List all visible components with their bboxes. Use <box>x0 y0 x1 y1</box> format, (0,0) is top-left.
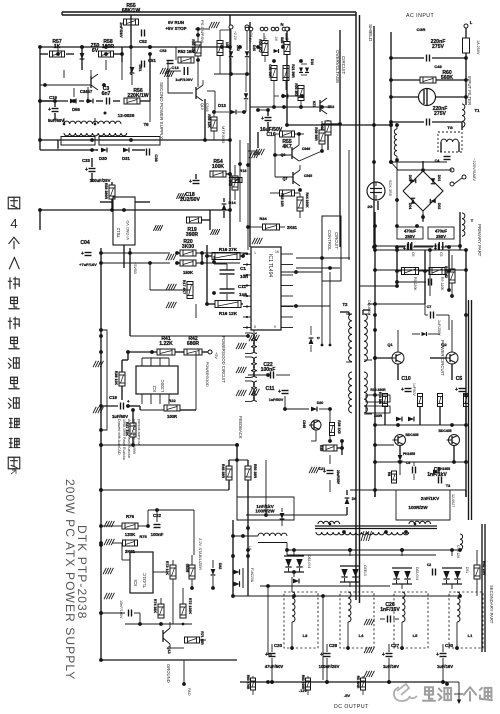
svg-text:+: + <box>436 652 439 658</box>
svg-text:D32: D32 <box>218 563 222 570</box>
svg-text:IC2: IC2 <box>152 385 157 392</box>
svg-text:C11: C11 <box>238 284 247 289</box>
svg-text:C20: C20 <box>274 643 283 648</box>
svg-text:C53: C53 <box>160 49 167 53</box>
svg-text:+2.2V: +2.2V <box>233 31 237 41</box>
svg-text:C10: C10 <box>401 376 411 382</box>
svg-text:1uF/16V: 1uF/16V <box>383 664 399 669</box>
svg-text:GROUND: GROUND <box>166 664 171 683</box>
svg-text:R52 16K: R52 16K <box>178 49 195 54</box>
svg-text:IC5: IC5 <box>133 579 138 586</box>
svg-text:D20: D20 <box>317 401 324 405</box>
svg-text:560R: 560R <box>185 564 189 573</box>
svg-text:2nF/2kV: 2nF/2kV <box>119 22 124 38</box>
svg-text:R59 390R: R59 390R <box>104 183 108 200</box>
svg-text:pavouk.comp.cz 1999: pavouk.comp.cz 1999 <box>132 419 136 454</box>
svg-text:IC1 TL494: IC1 TL494 <box>267 254 273 277</box>
svg-text:R22: R22 <box>168 398 176 403</box>
svg-text:C5: C5 <box>456 376 463 382</box>
svg-text:R73 10K: R73 10K <box>165 561 169 576</box>
svg-text:R16 12K: R16 12K <box>219 311 238 316</box>
svg-text:FEEDBACK: FEEDBACK <box>238 416 243 439</box>
svg-text:+: + <box>81 251 84 257</box>
svg-text:+: + <box>189 179 192 185</box>
svg-text:180R: 180R <box>102 44 114 50</box>
svg-text:C16: C16 <box>266 132 276 138</box>
svg-text:SECONDARY PART: SECONDARY PART <box>489 585 494 624</box>
svg-text:BDC405: BDC405 <box>438 429 451 433</box>
svg-text:D83-004: D83-004 <box>415 567 419 580</box>
svg-text:VDR: VDR <box>280 38 284 46</box>
svg-text:C27: C27 <box>391 643 400 648</box>
svg-text:+5V: +5V <box>248 36 252 43</box>
svg-text:R16 27K: R16 27K <box>219 247 238 252</box>
svg-text:L200C: L200C <box>160 380 165 392</box>
svg-text:470uF: 470uF <box>404 229 417 234</box>
svg-text:1A 250V: 1A 250V <box>476 40 480 55</box>
svg-text:12-0027: 12-0027 <box>451 494 455 507</box>
svg-text:330R: 330R <box>374 414 383 418</box>
svg-text:L5: L5 <box>413 633 418 638</box>
svg-text:DTK PTP-2038: DTK PTP-2038 <box>75 525 89 620</box>
svg-text:ZD2: ZD2 <box>328 105 335 109</box>
svg-text:1uF/50V: 1uF/50V <box>269 398 284 402</box>
svg-text:T2: T2 <box>343 302 349 307</box>
svg-text:Q7: Q7 <box>282 177 287 181</box>
svg-text:R75: R75 <box>139 534 147 539</box>
svg-text:1uF/16V: 1uF/16V <box>437 664 453 669</box>
svg-text:D56: D56 <box>72 107 80 112</box>
svg-text:100R/2W: 100R/2W <box>408 505 428 510</box>
svg-text:4K7: 4K7 <box>282 144 292 150</box>
svg-text:R38 10K: R38 10K <box>114 371 118 386</box>
svg-text:100R: 100R <box>167 414 177 419</box>
svg-text:C29: C29 <box>329 643 338 648</box>
svg-text:L4: L4 <box>359 633 364 638</box>
svg-text:C40 56R: C40 56R <box>268 64 272 78</box>
svg-text:+: + <box>455 387 458 393</box>
svg-text:220K/1W: 220K/1W <box>127 93 148 99</box>
svg-text:CEE13: CEE13 <box>363 565 367 576</box>
svg-text:150K: 150K <box>183 270 193 275</box>
svg-text:DC OUTPUT: DC OUTPUT <box>334 704 369 710</box>
svg-text:7812: 7812 <box>116 227 121 238</box>
svg-text:D13: D13 <box>218 103 226 108</box>
svg-text:3K00: 3K00 <box>182 244 194 250</box>
svg-text:1nF/1kV: 1nF/1kV <box>427 472 447 478</box>
svg-text:D04: D04 <box>408 203 412 210</box>
svg-text:SECOND POWER SUPPLY: SECOND POWER SUPPLY <box>159 82 164 139</box>
svg-text:-5V: -5V <box>344 693 351 698</box>
svg-text:R35: R35 <box>319 445 323 451</box>
svg-text:250V: 250V <box>436 234 446 239</box>
svg-text:CONTROL: CONTROL <box>327 230 332 251</box>
svg-text:R42 15R: R42 15R <box>482 561 486 576</box>
svg-text:9: 9 <box>274 325 276 329</box>
svg-text:D10: D10 <box>310 59 314 65</box>
svg-text:8: 8 <box>254 325 256 329</box>
svg-text:F16C20A: F16C20A <box>250 568 254 583</box>
svg-text:+: + <box>401 387 404 393</box>
svg-text:PRIMARY PART: PRIMARY PART <box>477 224 482 257</box>
svg-text:-12V: -12V <box>299 688 308 693</box>
svg-text:HZ?: HZ? <box>312 101 316 107</box>
svg-text:R44 190K: R44 190K <box>305 192 309 208</box>
svg-text:PS-ON/PSW: PS-ON/PSW <box>200 20 205 43</box>
svg-text:C21: C21 <box>319 467 326 471</box>
svg-text:D30: D30 <box>99 156 107 161</box>
svg-text:1998,1999 Pavel Ruzicka: 1998,1999 Pavel Ruzicka <box>122 419 126 460</box>
svg-text:275V: 275V <box>432 44 444 50</box>
svg-text:+: + <box>48 107 51 113</box>
svg-text:C3457: C3457 <box>80 89 93 94</box>
svg-text:100R/2W: 100R/2W <box>255 509 275 514</box>
svg-text:+: + <box>85 167 88 173</box>
svg-text:+5V: +5V <box>214 352 218 359</box>
svg-text:R49 39R: R49 39R <box>221 464 225 479</box>
svg-text:R8: R8 <box>387 472 391 476</box>
svg-text:TG: TG <box>447 125 453 130</box>
svg-text:VI GND VO: VI GND VO <box>126 220 130 240</box>
svg-text:C43: C43 <box>434 64 442 69</box>
svg-text:6V RUN: 6V RUN <box>168 20 184 25</box>
svg-text:C946: C946 <box>302 147 310 151</box>
svg-text:POWERGOOD CIRCUIT: POWERGOOD CIRCUIT <box>221 336 226 383</box>
svg-text:6n7: 6n7 <box>102 91 111 97</box>
svg-text:R56 10K: R56 10K <box>207 114 211 128</box>
svg-text:R21 56R: R21 56R <box>291 64 295 78</box>
svg-text:22uF/25V: 22uF/25V <box>336 470 340 485</box>
svg-text:D51: D51 <box>465 567 469 573</box>
svg-text:BDC405: BDC405 <box>405 433 418 437</box>
svg-text:250V: 250V <box>405 234 415 239</box>
svg-text:Q10: Q10 <box>200 103 204 110</box>
svg-text:100nF: 100nF <box>151 532 164 537</box>
svg-text:+5VSB: +5VSB <box>133 262 137 274</box>
svg-text:T6: T6 <box>143 122 149 127</box>
svg-text:C33: C33 <box>82 158 90 163</box>
svg-text:5uF/50V: 5uF/50V <box>48 118 64 123</box>
svg-text:T1: T1 <box>475 108 481 113</box>
svg-text:1.22K: 1.22K <box>159 341 173 347</box>
svg-text:-5V: -5V <box>274 36 278 42</box>
svg-text:C19: C19 <box>109 395 117 400</box>
svg-text:D03: D03 <box>408 175 412 182</box>
svg-text:T3: T3 <box>446 484 450 488</box>
svg-text:R43 10R: R43 10R <box>280 193 284 207</box>
svg-text:R00 3K0: R00 3K0 <box>294 83 298 96</box>
svg-text:R74 36K: R74 36K <box>153 599 157 614</box>
svg-text:R18 330R: R18 330R <box>370 388 386 392</box>
svg-text:4: 4 <box>10 216 17 231</box>
svg-text:C11: C11 <box>265 386 274 392</box>
svg-text:MTP3055: MTP3055 <box>221 126 226 144</box>
svg-text:CIRCUIT: CIRCUIT <box>334 232 339 249</box>
svg-text:16: 16 <box>275 250 279 254</box>
svg-text:AutoCAD Pavel Ruzicka: AutoCAD Pavel Ruzicka <box>127 419 131 458</box>
svg-text:L3: L3 <box>303 633 308 638</box>
svg-text:2.2V STABILIZER: 2.2V STABILIZER <box>198 538 203 570</box>
svg-text:R5 220K: R5 220K <box>413 277 417 291</box>
svg-text:DQ-6008: DQ-6008 <box>367 300 371 315</box>
svg-text:R9 220K: R9 220K <box>440 277 444 291</box>
svg-text:6V: 6V <box>92 48 99 54</box>
svg-text:CGR: CGR <box>417 27 426 32</box>
svg-text:R36 1K5: R36 1K5 <box>337 420 341 433</box>
svg-text:D9: D9 <box>352 497 357 501</box>
svg-text:+: + <box>127 399 130 404</box>
svg-text:R17 4K7: R17 4K7 <box>182 280 186 294</box>
svg-text:C2: C2 <box>427 563 431 567</box>
svg-text:CIRCUIT: CIRCUIT <box>341 56 346 74</box>
svg-text:SHIELD: SHIELD <box>367 24 373 42</box>
svg-text:200W PC ATX POWER SUPPLY: 200W PC ATX POWER SUPPLY <box>63 479 77 680</box>
svg-text:Drawed with AutoCAD: Drawed with AutoCAD <box>117 419 121 455</box>
svg-text:C36: C36 <box>154 154 159 162</box>
svg-text:100nF: 100nF <box>261 367 276 373</box>
svg-text:R56 56R: R56 56R <box>314 127 318 141</box>
svg-text:C5: C5 <box>439 252 443 257</box>
svg-text:C545: C545 <box>304 174 312 178</box>
svg-text:PAD: PAD <box>187 688 191 696</box>
svg-text:C4: C4 <box>406 461 410 465</box>
svg-text:470uF: 470uF <box>435 229 448 234</box>
svg-text:N: N <box>280 22 283 27</box>
svg-text:+5V STOP: +5V STOP <box>165 26 186 31</box>
svg-text:TL431C: TL431C <box>142 573 147 588</box>
svg-text:+: + <box>382 652 385 658</box>
svg-text:PH1655: PH1655 <box>403 452 415 456</box>
svg-text:+7uF/16V: +7uF/16V <box>79 262 97 267</box>
svg-text:C1: C1 <box>240 266 246 271</box>
svg-text:C04: C04 <box>80 240 90 246</box>
svg-text:C945: C945 <box>302 420 306 428</box>
svg-text:1: 1 <box>254 251 256 255</box>
svg-text:~220V/SA8V: ~220V/SA8V <box>472 158 477 181</box>
svg-text:Q2: Q2 <box>441 342 447 347</box>
svg-text:C13: C13 <box>171 65 179 70</box>
svg-text:2K61: 2K61 <box>287 225 298 230</box>
svg-text:1nF/16V: 1nF/16V <box>380 607 400 613</box>
svg-text:R76: R76 <box>126 514 135 519</box>
svg-text:R72 100K: R72 100K <box>188 598 192 615</box>
svg-text:+: + <box>278 389 281 395</box>
svg-text:pavouk.comp.cz: pavouk.comp.cz <box>137 419 141 445</box>
svg-text:390R: 390R <box>186 232 198 238</box>
svg-text:C52: C52 <box>139 39 147 44</box>
svg-text:D20: D20 <box>252 45 256 51</box>
svg-text:C6: C6 <box>411 252 415 257</box>
svg-text:L1: L1 <box>468 633 473 638</box>
svg-text:275V: 275V <box>434 111 446 117</box>
svg-text:C19: C19 <box>49 95 57 100</box>
svg-text:68K/1W: 68K/1W <box>122 8 141 14</box>
svg-text:D14: D14 <box>228 200 236 205</box>
svg-text:1uF/50V: 1uF/50V <box>412 383 416 397</box>
svg-text:D02: D02 <box>437 203 441 210</box>
svg-text:12-0026: 12-0026 <box>118 113 135 118</box>
svg-text:D01: D01 <box>437 175 441 182</box>
svg-text:2nF/1KV: 2nF/1KV <box>421 496 440 501</box>
svg-text:D31: D31 <box>122 156 130 161</box>
svg-text:10nF/100V: 10nF/100V <box>119 600 123 619</box>
svg-text:R50 39R: R50 39R <box>253 464 257 479</box>
svg-text:680R: 680R <box>187 341 199 347</box>
svg-text:D83-004: D83-004 <box>307 555 311 568</box>
svg-text:C7: C7 <box>427 305 432 309</box>
svg-text:100K: 100K <box>212 164 224 170</box>
svg-text:47uF/50V: 47uF/50V <box>265 664 284 669</box>
svg-text:+: + <box>261 116 264 122</box>
svg-text:L: L <box>470 20 473 25</box>
svg-text:R34: R34 <box>259 216 267 221</box>
svg-text:R18: R18 <box>240 169 247 173</box>
svg-text:Q1: Q1 <box>387 342 393 347</box>
svg-text:SCK 3R5: SCK 3R5 <box>388 180 392 196</box>
svg-text:OVERVOLTAGE: OVERVOLTAGE <box>335 50 340 83</box>
svg-text:1uF/100V: 1uF/100V <box>175 77 193 82</box>
svg-text:D1 2K2: D1 2K2 <box>228 174 232 186</box>
svg-text:2G: 2G <box>367 204 372 209</box>
svg-text:AC INPUT: AC INPUT <box>406 13 435 19</box>
svg-text:C30: C30 <box>445 643 454 648</box>
svg-text:120K: 120K <box>125 532 136 537</box>
svg-text:R71 15R: R71 15R <box>200 631 204 645</box>
svg-text:POWERGOOD: POWERGOOD <box>205 362 209 387</box>
svg-text:560K: 560K <box>441 75 453 81</box>
svg-text:1K: 1K <box>54 44 61 50</box>
svg-text:100uF/25V: 100uF/25V <box>319 664 340 669</box>
